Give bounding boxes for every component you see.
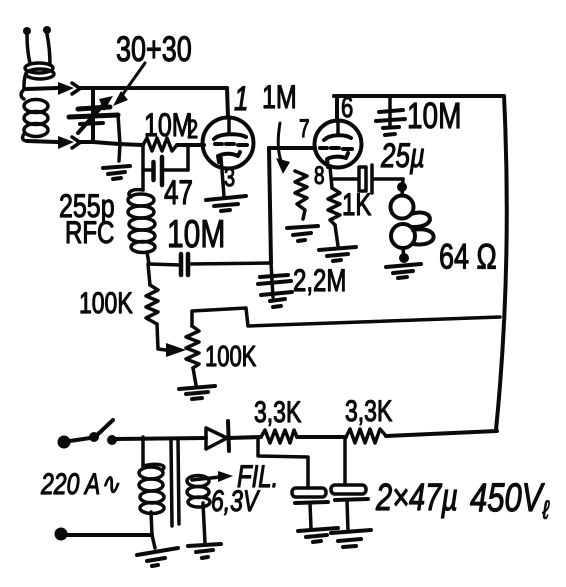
wire coupling cap to grid node xyxy=(188,263,271,264)
svg-text:47: 47 xyxy=(164,175,193,212)
tube V2 cathode xyxy=(327,153,348,167)
wire 1K to ground xyxy=(335,225,338,246)
ground pot xyxy=(179,386,215,399)
wire grid V2 xyxy=(269,146,315,150)
wire primary to ground xyxy=(152,535,155,548)
svg-text:1: 1 xyxy=(234,81,248,118)
switch xyxy=(70,420,117,445)
transformer primary drop xyxy=(141,437,145,466)
tube V2 anode xyxy=(324,96,351,140)
annotation arrow 30+30 xyxy=(113,63,145,106)
ground cathode V1 xyxy=(206,196,246,211)
svg-text:7: 7 xyxy=(299,115,310,143)
svg-text:1K: 1K xyxy=(342,187,372,222)
resistor 3.3K second xyxy=(346,429,386,443)
svg-text:10M: 10M xyxy=(167,213,225,256)
svg-text:2×47µ: 2×47µ xyxy=(375,477,458,518)
svg-text:10M: 10M xyxy=(144,108,193,144)
node phones bottom xyxy=(399,253,409,263)
annotation arrow 1M xyxy=(276,123,290,174)
node phones top xyxy=(397,179,407,196)
mains terminal top xyxy=(58,436,71,449)
tube V1 anode xyxy=(214,88,246,139)
svg-text:100K: 100K xyxy=(79,286,133,320)
headphones 64 ohm xyxy=(391,196,434,261)
svg-text:RFC: RFC xyxy=(65,215,114,250)
wire top rail right B+ xyxy=(334,94,504,98)
wire node to 100K xyxy=(148,264,150,285)
capacitor 47u second xyxy=(331,485,368,531)
svg-text:10M: 10M xyxy=(407,96,461,136)
wire pot bottom to ground xyxy=(193,368,196,385)
wire diode to R 3.3K xyxy=(229,437,261,438)
wire 3.3K to right rail xyxy=(386,431,497,436)
wire diode node to cap1 xyxy=(258,437,308,488)
tube V1 cathode xyxy=(218,152,240,196)
capacitor 47 xyxy=(143,147,188,185)
svg-text:25µ: 25µ xyxy=(380,138,425,175)
tube V2 envelope xyxy=(315,121,362,168)
svg-text:2,2M: 2,2M xyxy=(293,263,346,298)
tube V1 grid dashes xyxy=(215,144,247,145)
tank coil L1 xyxy=(21,89,48,141)
capacitor 2,2M to ground xyxy=(258,263,292,307)
wire secondary to ground xyxy=(203,503,205,543)
wire mains bottom xyxy=(67,533,152,537)
mains terminal bottom xyxy=(55,528,68,541)
wire top rail from coil to tube V1 anode xyxy=(27,82,227,95)
wire cathode V2 to 1K xyxy=(330,167,332,188)
tube V2 grid dashes xyxy=(320,148,352,149)
resistor 10M grid leak xyxy=(143,138,177,151)
resistor 1K xyxy=(328,188,340,225)
wire pot top to right rail xyxy=(192,308,500,326)
tube V1 envelope xyxy=(203,118,254,169)
antenna terminals xyxy=(23,26,51,65)
capacitor 25u xyxy=(359,165,403,193)
wire right rail down xyxy=(496,96,507,430)
potentiometer 100K xyxy=(186,326,199,368)
transformer core xyxy=(171,440,179,526)
RFC choke coil xyxy=(128,190,155,264)
svg-text:64 Ω: 64 Ω xyxy=(439,237,497,276)
ground secondary xyxy=(188,544,221,558)
resistor 1M grid leak V2 xyxy=(295,171,307,219)
svg-text:8: 8 xyxy=(314,162,325,190)
ground primary xyxy=(137,548,178,566)
wire rotor to ground xyxy=(118,115,120,161)
ground cap1 xyxy=(298,528,338,542)
ground 1M xyxy=(287,226,318,241)
variable capacitor 30+30 xyxy=(69,88,118,142)
svg-text:1M: 1M xyxy=(262,80,297,116)
svg-text:3: 3 xyxy=(224,162,235,191)
ground rotor xyxy=(103,166,130,179)
resistor 3.3K first xyxy=(261,430,297,443)
wiper arrow xyxy=(166,343,186,357)
arrow FIL output xyxy=(192,471,233,482)
wire 100K to wiper xyxy=(157,324,166,350)
svg-text:450Vℓ: 450Vℓ xyxy=(470,474,550,524)
svg-text:3,3K: 3,3K xyxy=(254,395,301,429)
resistor 100K xyxy=(146,285,158,324)
svg-text:30+30: 30+30 xyxy=(116,30,192,69)
transformer primary winding xyxy=(139,464,164,535)
capacitor 10M coupling xyxy=(181,254,188,275)
wire bottom rail from coil to grid node xyxy=(27,136,143,149)
svg-text:100K: 100K xyxy=(205,341,256,372)
svg-text:220 A∿: 220 A∿ xyxy=(40,467,119,501)
wire RFC to coupling cap xyxy=(149,264,181,265)
wire between 3.3K xyxy=(297,435,346,439)
transformer secondary winding xyxy=(187,476,210,508)
capacitor 47u first xyxy=(292,488,328,528)
wire switch to diode xyxy=(116,438,206,439)
wire cathode node to 25u xyxy=(332,177,359,181)
ground cap2 xyxy=(331,530,371,547)
ground phones xyxy=(386,264,421,278)
svg-text:2: 2 xyxy=(187,115,198,144)
svg-text:6,3V: 6,3V xyxy=(211,484,260,518)
wire mid node to cap2 xyxy=(343,437,347,485)
ground 1K xyxy=(319,247,356,261)
wire grid V2 return vertical xyxy=(269,148,271,263)
capacitor 10M decoupling xyxy=(376,98,405,135)
diode rectifier xyxy=(206,421,229,451)
antenna coupling coil xyxy=(24,63,54,89)
wire 10M left node down to RFC xyxy=(141,145,145,190)
wire grid V1 xyxy=(177,143,204,147)
svg-text:3,3K: 3,3K xyxy=(345,394,392,428)
